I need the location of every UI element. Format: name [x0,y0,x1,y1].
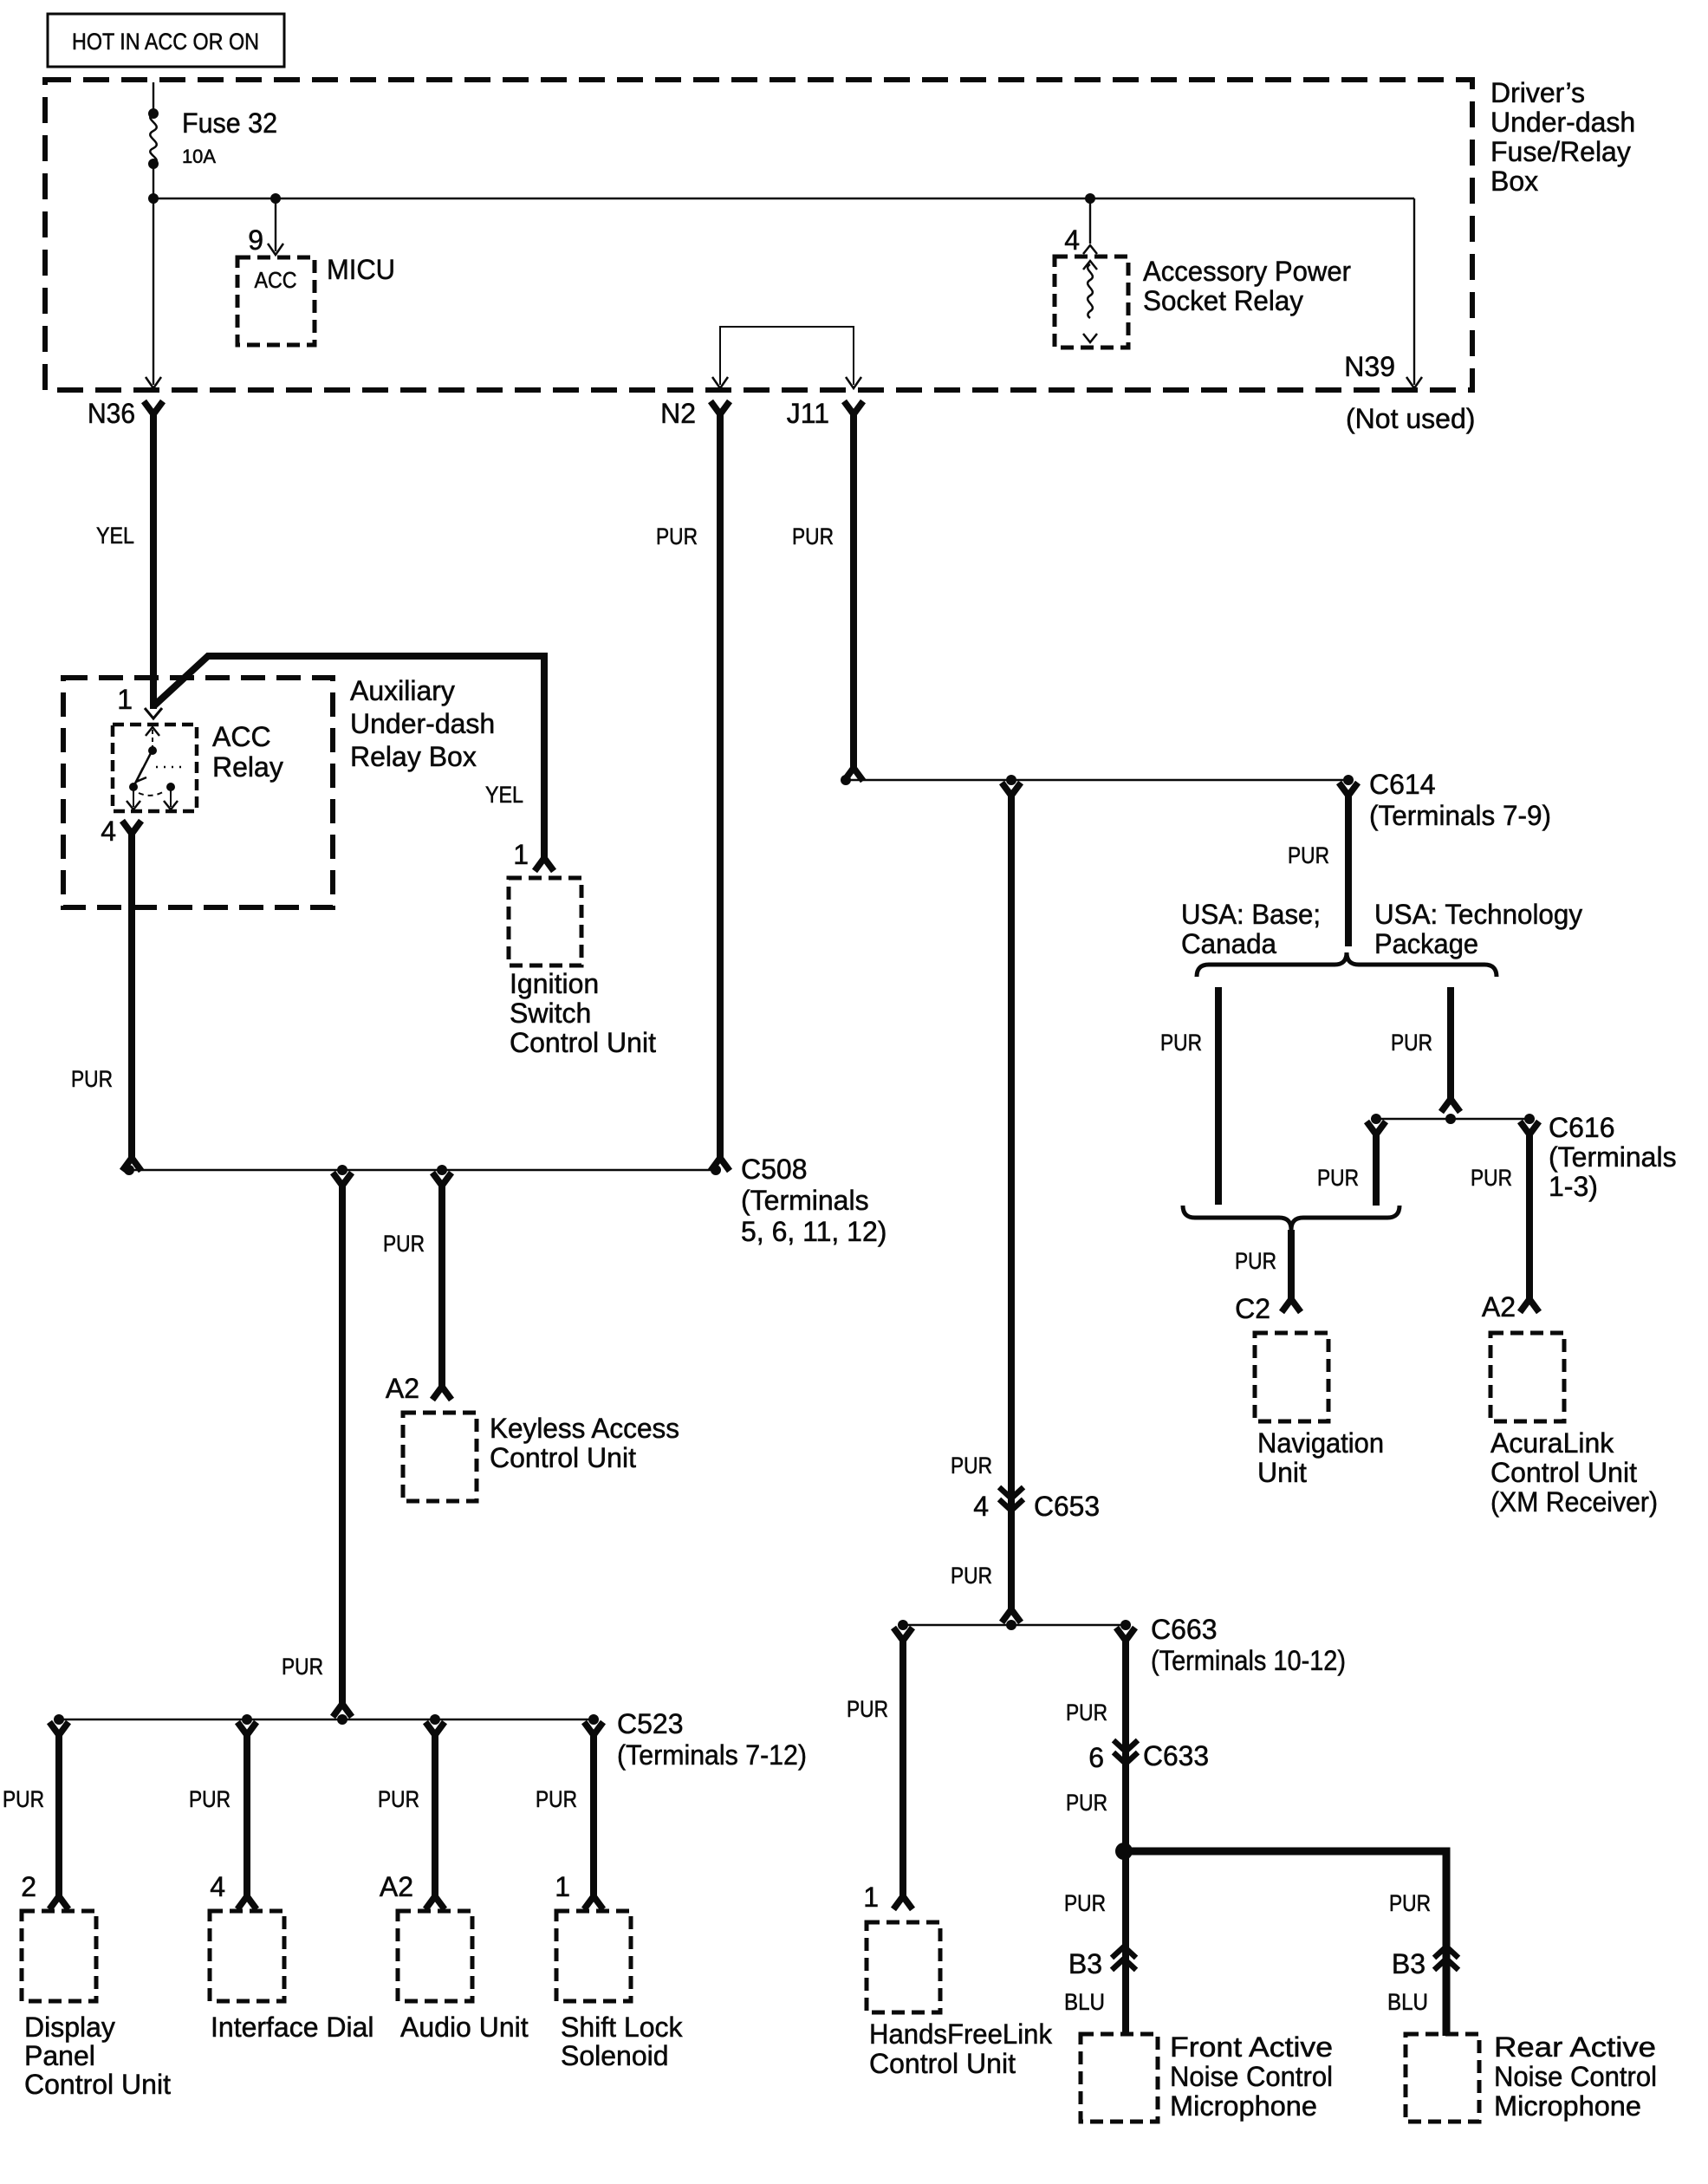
connector B3 (front mic, double chevron up) [1068,1947,1136,1979]
svg-text:N39: N39 [1344,351,1395,382]
svg-text:Control Unit: Control Unit [24,2069,171,2100]
svg-text:Auxiliary: Auxiliary [350,675,455,706]
svg-text:MICU: MICU [327,254,395,285]
ACC relay internals: contact arrow pin1 [146,727,159,755]
svg-text:(Terminals 7-9): (Terminals 7-9) [1369,800,1551,831]
svg-text:Noise Control: Noise Control [1494,2061,1657,2092]
svg-text:B3: B3 [1392,1948,1425,1979]
label: Front Active Noise Control Microphone [1170,2031,1333,2122]
svg-text:Navigation: Navigation [1257,1427,1384,1459]
svg-text:1: 1 [555,1871,570,1902]
wire: branch to rear microphone (PUR) [1124,1851,1446,2036]
svg-text:C663: C663 [1151,1614,1218,1645]
node C663 bus (terminals 10-12) [898,1620,1131,1630]
svg-text:PUR: PUR [847,1696,888,1722]
svg-text:(Terminals 7-12): (Terminals 7-12) [617,1739,807,1771]
wire: PUR from ACC relay pin 4 to C508 [122,832,141,1171]
svg-text:AcuraLink: AcuraLink [1490,1427,1614,1459]
svg-text:USA: Technology: USA: Technology [1374,899,1582,930]
label: C663 (Terminals 10-12) [1151,1614,1346,1676]
svg-text:PUR: PUR [792,523,834,549]
svg-text:PUR: PUR [1066,1700,1107,1726]
brace: navigation unit merge [1183,1206,1400,1230]
svg-text:A2: A2 [386,1373,419,1404]
node C616 bus (terminals 1-3) [1371,1114,1535,1124]
svg-text:Driver’s: Driver’s [1490,77,1585,108]
svg-text:C653: C653 [1034,1491,1100,1522]
svg-text:Microphone: Microphone [1494,2090,1641,2122]
svg-text:4: 4 [973,1491,989,1522]
node C508 bus (terminals 5,6,11,12) [124,1165,721,1175]
brace: option split under C614 [1197,952,1497,977]
svg-text:Control Unit: Control Unit [490,1442,636,1473]
label: USA: Technology Package [1374,899,1582,959]
svg-text:Keyless Access: Keyless Access [490,1413,679,1444]
svg-text:PUR: PUR [1064,1890,1106,1916]
wire: internal horizontal bus to N39 [153,198,1414,199]
svg-text:Solenoid: Solenoid [561,2040,669,2071]
label: Interface Dial [211,2012,374,2043]
wire: feed from box top to Fuse 32 [153,82,154,114]
svg-text:Package: Package [1374,928,1478,959]
label: C616 (Terminals 1-3) [1549,1112,1677,1202]
svg-text:Fuse/Relay: Fuse/Relay [1490,136,1631,167]
svg-text:C508: C508 [741,1154,808,1185]
node: HOT IN ACC OR ON feed box [48,14,284,67]
svg-text:5, 6, 11, 12): 5, 6, 11, 12) [741,1216,886,1247]
connector C653 pin 4 (inline, double chevron) [973,1487,1100,1522]
svg-text:4: 4 [101,816,116,847]
wire: C523 branch to Shift Lock Solenoid (PUR) [584,1722,603,1909]
svg-text:9: 9 [248,224,263,256]
svg-text:HandsFreeLink: HandsFreeLink [869,2018,1053,2050]
connector B3 (rear mic, double chevron up) [1392,1947,1458,1979]
svg-text:Interface Dial: Interface Dial [211,2012,374,2043]
svg-text:N2: N2 [660,398,696,429]
svg-text:N36: N36 [88,398,135,429]
svg-text:PUR: PUR [1471,1165,1512,1191]
label: HandsFreeLink Control Unit [869,2018,1053,2079]
wire: C616 to AcuraLink control unit (PUR) [1520,1121,1539,1312]
svg-text:1-3): 1-3) [1549,1171,1598,1202]
ACC relay internals: switch blade [129,753,184,796]
label: C523 (Terminals 7-12) [617,1708,807,1771]
svg-text:Control Unit: Control Unit [510,1027,656,1058]
control unit: HandsFreeLink Control Unit (dashed box) [867,1922,940,2012]
svg-text:Fuse 32: Fuse 32 [182,107,277,139]
svg-text:(XM Receiver): (XM Receiver) [1490,1486,1658,1518]
wire: PUR N2 vertical to C508 [711,413,730,1171]
svg-text:PUR: PUR [656,523,698,549]
svg-text:1: 1 [513,839,529,870]
svg-text:A2: A2 [1482,1291,1516,1323]
svg-text:6: 6 [1088,1742,1104,1773]
connector C633 pin 6 (inline, double chevron) [1088,1740,1209,1773]
svg-text:Box: Box [1490,166,1538,197]
svg-text:Switch: Switch [510,998,591,1029]
label: AcuraLink Control Unit (XM Receiver) [1490,1427,1658,1518]
node J11 (box exit terminal) [787,398,863,429]
svg-text:Under-dash: Under-dash [1490,107,1635,138]
svg-text:PUR: PUR [1066,1790,1107,1816]
svg-text:PUR: PUR [536,1786,577,1812]
svg-text:Relay: Relay [212,751,283,783]
microphone: Front Active Noise Control Microphone (dashed box) [1081,2034,1158,2122]
node C614 bus (terminals 7-9) [841,775,1354,785]
svg-text:BLU: BLU [1064,1989,1105,2015]
svg-text:PUR: PUR [1389,1890,1431,1916]
svg-text:PUR: PUR [3,1786,44,1812]
wire: C523 branch to Interface Dial (PUR) [237,1722,257,1909]
svg-text:A2: A2 [380,1871,413,1902]
svg-text:10A: 10A [182,146,216,167]
svg-text:C2: C2 [1235,1293,1270,1324]
svg-text:PUR: PUR [282,1654,323,1680]
svg-text:Display: Display [24,2012,115,2043]
wire: fuse output down to N36 exit (thin, inside box) [146,164,161,388]
wire: technology package branch (PUR) [1441,987,1460,1112]
label: C614 (Terminals 7-9) [1369,769,1551,831]
svg-text:Under-dash: Under-dash [350,708,495,739]
relay: Accessory Power Socket Relay (dashed box with coil) [1055,257,1128,348]
wire: internal jumper loop feeding N2 and J11 [712,327,861,388]
wire: C663 to microphones via C633 (PUR) [1116,1628,1135,2036]
svg-text:YEL: YEL [485,782,523,808]
wire: C523 branch to Display Panel Control Unit (PUR) [49,1722,68,1909]
label: Accessory Power Socket Relay [1143,256,1351,316]
wire: C663 to HandsFreeLink control unit (PUR) [893,1628,912,1909]
svg-text:PUR: PUR [951,1453,992,1479]
wire: C614 to USA-option brace (PUR) [1339,783,1358,946]
Driver's Under-dash Fuse/Relay Box (dashed enclosure) [45,80,1472,390]
wire: PUR J11 vertical to C614 [844,413,863,781]
svg-text:Socket Relay: Socket Relay [1143,285,1303,316]
node N2 (box exit terminal) [660,398,730,429]
svg-text:4: 4 [1064,224,1080,256]
svg-text:Unit: Unit [1257,1457,1307,1488]
svg-text:ACC: ACC [212,721,271,752]
svg-text:PUR: PUR [189,1786,231,1812]
wire: C614 to C663 via C653 (PUR) [1002,783,1021,1622]
pin 1 (Ignition Switch Control Unit) [513,839,554,871]
svg-text:Rear Active: Rear Active [1494,2031,1656,2063]
pin 1 (ACC relay, entry arrow) [117,684,162,718]
wire: base/Canada branch (PUR) [1215,987,1222,1205]
control unit: Shift Lock Solenoid (dashed box) [556,1911,631,2001]
node C523 bus (terminals 7-12) [54,1714,599,1725]
wire: drop to MICU pin 9 [268,193,283,255]
control unit: Keyless Access Control Unit (dashed box) [403,1413,477,1501]
svg-text:(Not used): (Not used) [1346,403,1475,434]
svg-text:(Terminals 10-12): (Terminals 10-12) [1151,1645,1346,1676]
control unit: Display Panel Control Unit (dashed box) [22,1911,96,2001]
label: Navigation Unit [1257,1427,1384,1488]
svg-text:Canada: Canada [1181,928,1276,959]
label: USA: Base; Canada [1181,899,1321,959]
svg-text:PUR: PUR [1235,1248,1276,1274]
wire: drop to Accessory Power Socket Relay pin 4 [1083,193,1097,254]
microphone: Rear Active Noise Control Microphone (dashed box) [1406,2034,1479,2122]
svg-text:Ignition: Ignition [510,968,599,999]
svg-text:PUR: PUR [1288,842,1329,868]
svg-text:PUR: PUR [383,1231,425,1257]
svg-text:C616: C616 [1549,1112,1615,1143]
label: Display Panel Control Unit [24,2012,171,2100]
svg-text:Front Active: Front Active [1170,2031,1333,2063]
svg-text:C614: C614 [1369,769,1436,800]
svg-text:HOT IN ACC OR ON: HOT IN ACC OR ON [72,29,259,55]
node: junction to rear microphone branch [1115,1843,1133,1860]
svg-text:(Terminals: (Terminals [741,1185,869,1216]
Auxiliary Under-dash Relay Box (dashed enclosure) [63,678,333,907]
label: Fuse 32 10A [182,107,277,167]
label: Keyless Access Control Unit [490,1413,679,1473]
svg-text:4: 4 [210,1871,225,1902]
node N36 (box exit terminal) [88,398,163,429]
svg-text:USA: Base;: USA: Base; [1181,899,1321,930]
control unit: Ignition Switch Control Unit (dashed box) [509,878,581,965]
svg-text:Accessory Power: Accessory Power [1143,256,1351,287]
label: Ignition Switch Control Unit [510,968,656,1058]
svg-text:Noise Control: Noise Control [1170,2061,1333,2092]
pin 4 (ACC relay) [101,816,141,847]
label: Driver's Under-dash Fuse/Relay Box [1490,77,1635,197]
svg-text:J11: J11 [787,398,829,429]
svg-text:B3: B3 [1068,1948,1102,1979]
control unit: AcuraLink Control Unit (dashed box) [1490,1333,1564,1421]
control unit: Audio Unit (dashed box) [398,1911,472,2001]
svg-text:C633: C633 [1143,1740,1209,1771]
svg-text:YEL: YEL [96,523,134,549]
ACC relay internals: contact arrows to pins [127,789,178,809]
svg-text:Microphone: Microphone [1170,2090,1317,2122]
svg-text:Panel: Panel [24,2040,95,2071]
svg-text:Relay Box: Relay Box [350,741,477,772]
wire: brace to Navigation Unit (PUR) [1282,1230,1301,1312]
control unit: Interface Dial (dashed box) [210,1911,284,2001]
svg-text:2: 2 [21,1871,36,1902]
label: Shift Lock Solenoid [561,2012,684,2071]
wire: N36 to ACC relay pin 1 (YEL) [150,413,157,709]
svg-text:PUR: PUR [1391,1030,1432,1056]
svg-text:PUR: PUR [1160,1030,1202,1056]
svg-text:Shift Lock: Shift Lock [561,2012,684,2043]
wire: YEL from relay pin 1 to Ignition Switch Control Unit [153,656,544,858]
label: ACC Relay [212,721,283,783]
label: Auxiliary Under-dash Relay Box [350,675,495,772]
svg-text:(Terminals: (Terminals [1549,1141,1677,1173]
svg-text:C523: C523 [617,1708,684,1739]
relay: ACC Relay (dashed box) [113,725,197,811]
svg-text:PUR: PUR [378,1786,419,1812]
svg-text:ACC: ACC [255,267,297,293]
fuse F32 10A (squiggle symbol with end dots) [148,108,159,169]
svg-text:Audio Unit: Audio Unit [400,2012,529,2043]
label: Audio Unit [400,2012,529,2043]
control unit: MICU (ACC output, dashed box) [237,257,315,345]
svg-text:1: 1 [117,684,133,715]
svg-text:Control Unit: Control Unit [869,2048,1016,2079]
svg-text:1: 1 [863,1882,879,1913]
wire: C508 to C523 (PUR) [333,1173,352,1717]
wire: N39 drop (not used) [1406,198,1422,388]
label: Rear Active Noise Control Microphone [1494,2031,1657,2122]
svg-text:PUR: PUR [1317,1165,1359,1191]
node: junction of fuse output and internal bus [148,193,159,204]
svg-text:PUR: PUR [71,1066,113,1092]
svg-text:Control Unit: Control Unit [1490,1457,1637,1488]
wire: C523 branch to Audio Unit (PUR) [425,1722,445,1909]
control unit: Navigation Unit (dashed box) [1255,1333,1328,1421]
wire: C508 to Keyless Access Control Unit (PUR) [432,1173,451,1400]
svg-text:BLU: BLU [1387,1989,1428,2015]
wire: C616 to navigation brace (PUR) [1367,1121,1386,1206]
svg-text:PUR: PUR [951,1563,992,1589]
label: C508 (Terminals 5, 6, 11, 12) [741,1154,886,1247]
